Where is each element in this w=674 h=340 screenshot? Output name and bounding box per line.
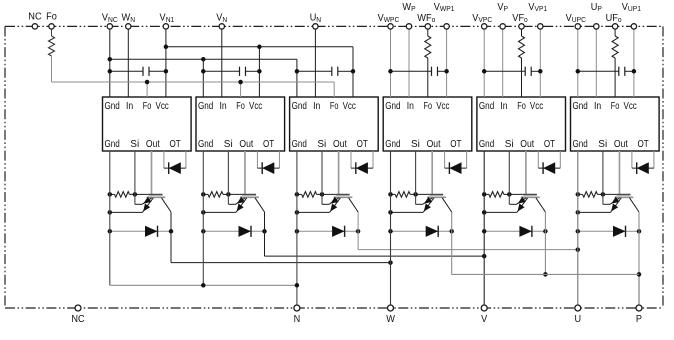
svg-text:Gnd: Gnd [292,101,307,112]
svg-text:UP1: UP1 [628,4,641,13]
svg-text:Gnd: Gnd [105,101,120,112]
svg-text:Fo: Fo [143,101,152,112]
svg-text:N: N [294,314,301,325]
svg-text:OT: OT [638,139,649,150]
svg-text:Gnd: Gnd [479,101,494,112]
svg-text:Vcc: Vcc [156,101,169,112]
svg-text:In: In [220,101,227,112]
svg-text:Out: Out [427,139,441,150]
svg-text:Gnd: Gnd [198,139,213,150]
svg-text:VPC: VPC [478,15,492,24]
svg-text:OT: OT [263,139,274,150]
svg-text:Fo: Fo [46,12,57,23]
svg-text:Out: Out [333,139,347,150]
svg-text:P: P [411,4,416,13]
svg-text:Si: Si [317,139,326,150]
svg-text:In: In [126,101,133,112]
svg-text:Fo: Fo [330,101,339,112]
svg-text:V: V [481,314,487,325]
svg-text:Fo: Fo [236,101,245,112]
svg-text:In: In [594,101,601,112]
svg-text:Gnd: Gnd [573,101,588,112]
svg-text:In: In [500,101,507,112]
svg-text:U: U [591,2,598,13]
svg-text:Si: Si [224,139,233,150]
svg-text:Fo: Fo [611,101,620,112]
svg-text:Fo: Fo [517,101,526,112]
svg-text:Vcc: Vcc [624,101,637,112]
svg-text:Vcc: Vcc [249,101,262,112]
svg-text:U: U [310,13,317,24]
svg-text:Out: Out [146,139,160,150]
svg-text:o: o [524,15,528,24]
svg-text:NC: NC [108,15,118,24]
svg-text:Si: Si [505,139,514,150]
svg-text:Vcc: Vcc [530,101,543,112]
svg-text:Vcc: Vcc [436,101,449,112]
svg-text:W: W [386,314,395,325]
svg-text:WPC: WPC [384,15,400,24]
svg-text:o: o [432,15,436,24]
svg-text:U: U [575,314,582,325]
svg-text:WP1: WP1 [440,4,455,13]
svg-text:Gnd: Gnd [385,139,400,150]
svg-text:Out: Out [614,139,628,150]
svg-text:Gnd: Gnd [573,139,588,150]
svg-text:Out: Out [520,139,534,150]
svg-text:Si: Si [130,139,139,150]
svg-text:OT: OT [357,139,368,150]
svg-text:WF: WF [417,13,431,24]
svg-text:N1: N1 [166,15,175,24]
svg-text:P: P [504,4,509,13]
svg-text:Out: Out [239,139,253,150]
svg-text:Gnd: Gnd [479,139,494,150]
svg-text:Gnd: Gnd [105,139,120,150]
svg-text:Gnd: Gnd [292,139,307,150]
svg-text:Vcc: Vcc [343,101,356,112]
svg-text:P: P [597,4,602,13]
svg-text:In: In [407,101,414,112]
svg-text:o: o [618,15,622,24]
svg-text:N: N [222,15,227,24]
svg-text:UPC: UPC [572,15,586,24]
svg-text:Gnd: Gnd [385,101,400,112]
svg-text:Gnd: Gnd [198,101,213,112]
svg-text:UF: UF [606,13,618,24]
svg-text:Si: Si [598,139,607,150]
svg-text:NC: NC [71,314,84,325]
svg-text:OT: OT [170,139,181,150]
svg-text:OT: OT [450,139,461,150]
svg-text:Fo: Fo [424,101,433,112]
svg-text:In: In [313,101,320,112]
svg-text:N: N [130,15,135,24]
svg-text:OT: OT [544,139,555,150]
svg-text:P: P [636,314,642,325]
svg-text:NC: NC [28,12,41,23]
svg-text:N: N [316,15,321,24]
svg-text:Si: Si [411,139,420,150]
svg-text:VP1: VP1 [535,4,548,13]
svg-text:VF: VF [512,13,524,24]
